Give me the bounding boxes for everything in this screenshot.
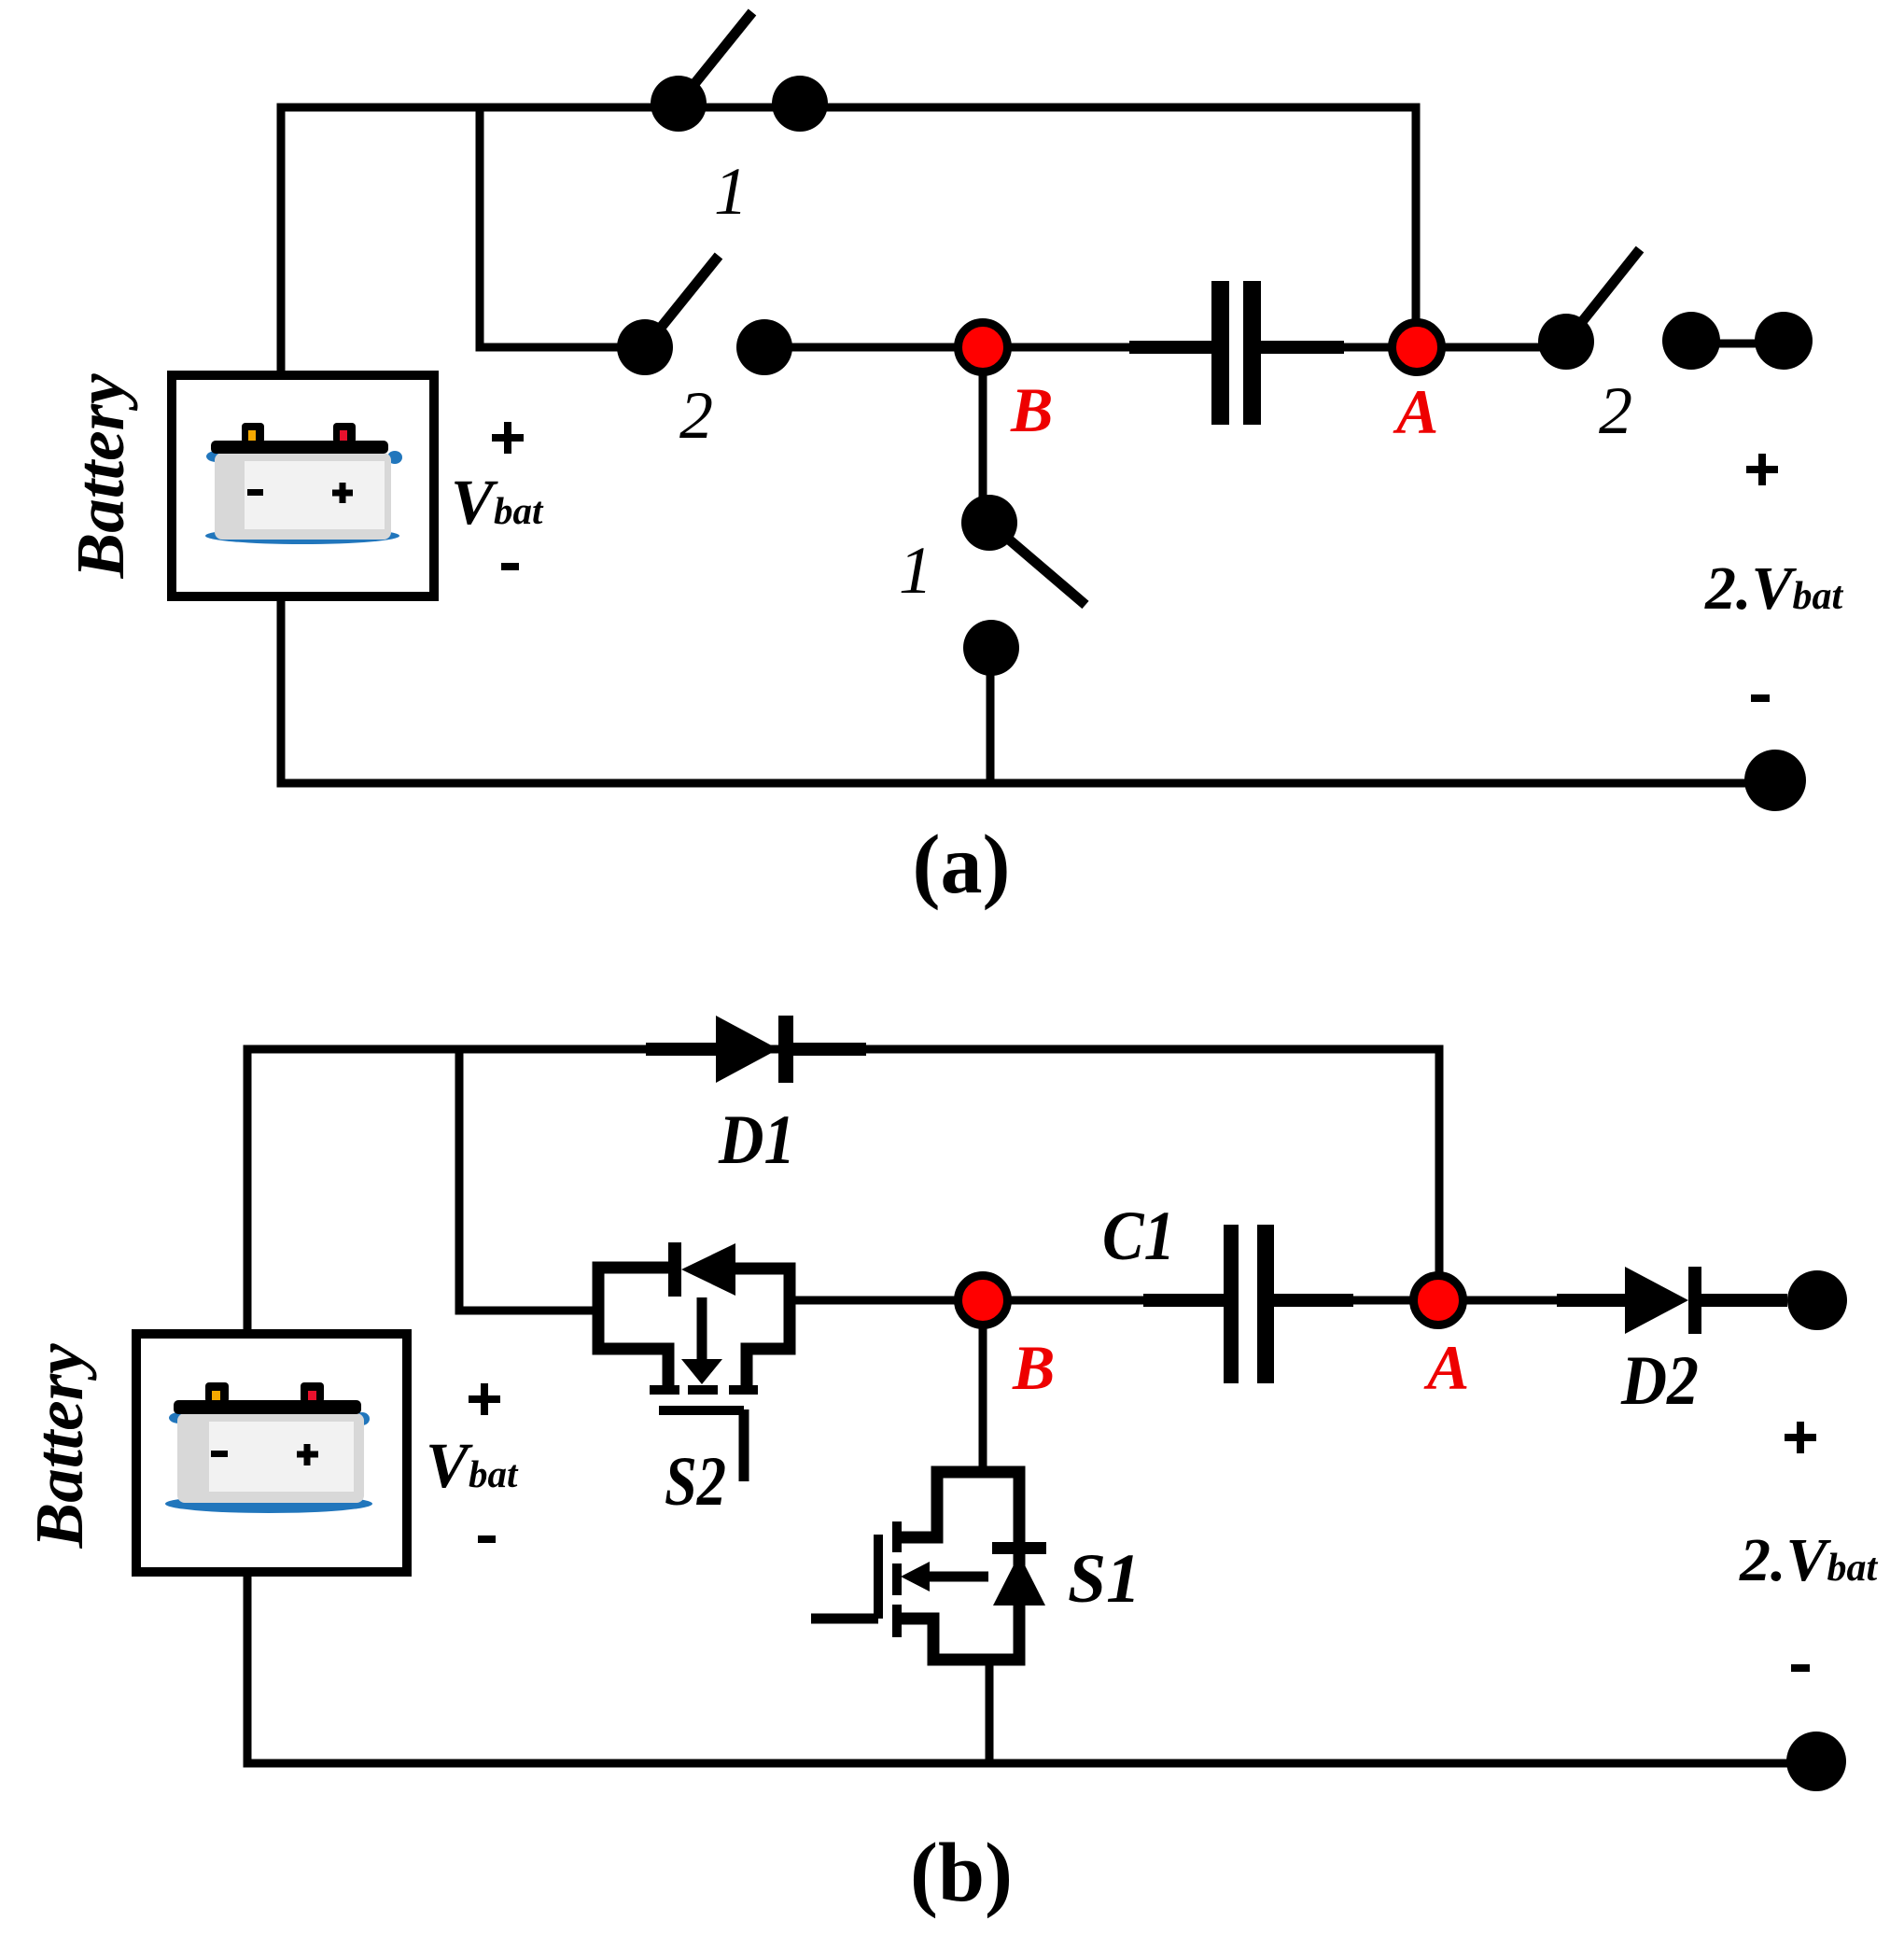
MOSFET S1: body diode cathode bar bbox=[992, 1542, 1046, 1554]
svg-text:1: 1 bbox=[899, 533, 932, 608]
wire: node B to capacitor C1 bbox=[983, 1297, 1224, 1305]
switch 1 (a top): left contact dot bbox=[651, 76, 707, 132]
svg-text:(b): (b) bbox=[910, 1827, 1013, 1919]
node A (b) bbox=[1414, 1276, 1463, 1325]
plus sign of Vbat (b) bbox=[469, 1383, 500, 1415]
MOSFET S2: gate lead bbox=[739, 1409, 749, 1481]
wire: branch from top rail down to S2 bbox=[459, 1049, 603, 1311]
capacitor C1 lead left (thick) bbox=[1143, 1294, 1224, 1307]
node B (b) bbox=[959, 1276, 1008, 1325]
wire: capacitor to node A bbox=[1261, 344, 1416, 352]
svg-text:Battery: Battery bbox=[21, 1343, 97, 1549]
svg-text:B: B bbox=[1010, 374, 1053, 445]
plus sign of output (a) bbox=[1746, 454, 1778, 485]
MOSFET S2: body diode triangle (points left) bbox=[681, 1243, 735, 1296]
wire: battery(b) plus lead, top rail, corner down to node A bbox=[247, 1049, 1439, 1334]
svg-text:D2: D2 bbox=[1620, 1342, 1699, 1420]
wire: C1 to node A (b) bbox=[1274, 1297, 1438, 1305]
MOSFET S2: channel bar right bbox=[729, 1385, 758, 1395]
wire: battery(b) minus lead and bottom rail bbox=[247, 1572, 1816, 1763]
switch 2 (a left): lever bbox=[645, 256, 719, 347]
output terminal dot (b minus) bbox=[1786, 1732, 1846, 1791]
MOSFET S1: channel bar top bbox=[892, 1521, 902, 1552]
wire: node A to right switch bbox=[1416, 344, 1566, 352]
wire: node B to capacitor left plate bbox=[983, 344, 1211, 352]
MOSFET S1: channel bar bottom bbox=[892, 1605, 902, 1637]
MOSFET S2: channel bar middle bbox=[688, 1385, 718, 1395]
battery box (b) bbox=[136, 1334, 407, 1572]
wire: link between output dots bbox=[1691, 340, 1784, 348]
capacitor C1 lead right (thick) bbox=[1274, 1294, 1353, 1307]
output terminal dot (a plus) bbox=[1755, 312, 1813, 370]
diode D2: cathode bar bbox=[1688, 1267, 1701, 1334]
wire: node B down to MOSFET S1 bbox=[979, 1300, 987, 1472]
battery icon (b) bbox=[165, 1382, 372, 1513]
MOSFET S1: gate lead bbox=[811, 1614, 878, 1624]
svg-text:2: 2 bbox=[679, 378, 713, 453]
capacitor lead left (thick) bbox=[1129, 341, 1211, 354]
output terminal dot (b plus) bbox=[1787, 1270, 1847, 1330]
switch 1 (a top): lever bbox=[679, 12, 752, 104]
svg-text:2: 2 bbox=[1599, 373, 1632, 448]
svg-text:S2: S2 bbox=[665, 1443, 726, 1521]
diode D1: triangle bbox=[716, 1016, 778, 1083]
MOSFET S1: body diode triangle (points up) bbox=[993, 1554, 1045, 1605]
svg-text:C1: C1 bbox=[1102, 1198, 1175, 1275]
minus sign of Vbat (b) bbox=[478, 1535, 496, 1543]
wire: switch 2 to node B bbox=[764, 344, 971, 352]
wire: S2 to node B (b) bbox=[790, 1297, 971, 1305]
minus sign of output (a) bbox=[1751, 694, 1770, 702]
diode D1: anode lead bbox=[646, 1043, 716, 1056]
switch 1 (a mid): lever bbox=[989, 523, 1085, 605]
MOSFET S2: body diode cathode bar bbox=[668, 1242, 681, 1297]
diode D2: triangle bbox=[1625, 1267, 1688, 1334]
svg-text:D1: D1 bbox=[718, 1101, 795, 1179]
wire: S1 down to bottom rail bbox=[986, 1660, 994, 1763]
svg-text:1: 1 bbox=[714, 154, 748, 229]
capacitor (a) right plate bbox=[1243, 281, 1261, 425]
svg-text:A: A bbox=[1423, 1332, 1469, 1403]
output terminal dot (a minus) bbox=[1744, 750, 1806, 811]
switch 1 (a top): right contact dot bbox=[772, 76, 828, 132]
node A (a) bbox=[1393, 323, 1442, 372]
svg-text:Battery: Battery bbox=[63, 373, 138, 580]
switch 2 (a right): lever bbox=[1566, 249, 1640, 342]
MOSFET S2: package loop right half bbox=[735, 1269, 790, 1385]
minus sign of Vbat (a) bbox=[501, 563, 519, 570]
battery icon (a) bbox=[205, 423, 402, 544]
wire: battery(a) minus lead and bottom rail bbox=[281, 596, 1775, 783]
svg-text:B: B bbox=[1012, 1332, 1055, 1403]
svg-text:S1: S1 bbox=[1068, 1540, 1141, 1618]
switch 2 (a left): right contact dot bbox=[736, 319, 792, 375]
plus sign of output (b) bbox=[1785, 1422, 1816, 1453]
wire: switch 1 lower dot to bottom rail bbox=[987, 648, 995, 783]
MOSFET S1: channel bar middle bbox=[892, 1563, 902, 1595]
switch 1 (a mid): upper contact dot bbox=[961, 495, 1017, 551]
diode D2: anode lead from node A bbox=[1438, 1297, 1625, 1305]
diode D1: cathode lead bbox=[793, 1043, 866, 1056]
node B (a) bbox=[959, 323, 1008, 372]
wire: node B down to switch 1 (mid) bbox=[979, 347, 987, 500]
diode D1: cathode bar bbox=[778, 1016, 793, 1083]
wire: branch from top rail down to switch 2 row bbox=[480, 107, 618, 347]
capacitor lead right (thick) bbox=[1261, 341, 1344, 354]
switch 2 (a left): left contact dot bbox=[617, 319, 673, 375]
capacitor C1 left plate bbox=[1224, 1225, 1239, 1383]
switch 2 (a right): left contact dot bbox=[1538, 314, 1594, 370]
svg-text:A: A bbox=[1393, 376, 1438, 447]
capacitor (a) left plate bbox=[1211, 281, 1229, 425]
battery box (a) bbox=[172, 375, 434, 596]
MOSFET S1: package loop (drain leg, top, right, bottom, source leg) bbox=[897, 1472, 1019, 1660]
switch 2 (a right): output-side dot bbox=[1662, 312, 1720, 370]
minus sign of output (b) bbox=[1791, 1664, 1810, 1672]
MOSFET S2: channel bar left bbox=[650, 1385, 679, 1395]
switch 1 (a mid): lower contact dot bbox=[963, 620, 1019, 676]
wire: battery(a) plus lead, top rail, corner down to node A bbox=[281, 107, 1416, 376]
MOSFET S1: gate plate bbox=[874, 1535, 883, 1619]
capacitor C1 right plate bbox=[1257, 1225, 1274, 1383]
plus sign of Vbat (a) bbox=[492, 422, 524, 454]
MOSFET S2: gate plate bbox=[659, 1406, 744, 1415]
svg-text:(a): (a) bbox=[913, 819, 1011, 911]
MOSFET S2: bulk arrow (down) bbox=[697, 1297, 707, 1361]
MOSFET S1: bulk arrow (left) bbox=[930, 1572, 988, 1582]
diode D2: cathode lead bbox=[1701, 1294, 1787, 1307]
MOSFET S2: package loop left half bbox=[598, 1268, 668, 1385]
